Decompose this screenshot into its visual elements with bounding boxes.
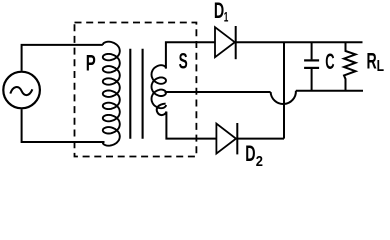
transformer dashed box: [75, 23, 197, 157]
svg-text:P: P: [86, 50, 96, 75]
wire source bottom to primary: [22, 109, 105, 142]
svg-text:1: 1: [224, 8, 229, 24]
capacitor C: [304, 42, 319, 90]
wire diode junction vertical: [283, 42, 285, 138]
svg-text:D: D: [214, 0, 224, 23]
ac source: [3, 72, 40, 109]
svg-text:S: S: [179, 49, 188, 74]
wire center tap: [165, 91, 271, 93]
wire bottom output rail: [296, 90, 363, 92]
transformer secondary winding: [152, 65, 167, 108]
resistor RL: [344, 42, 356, 90]
svg-text:R: R: [367, 49, 377, 74]
svg-text:L: L: [377, 58, 384, 75]
svg-text:2: 2: [256, 153, 263, 169]
diode D2: [216, 123, 284, 154]
transformer core: [130, 49, 142, 139]
diode D1: [215, 26, 284, 59]
wire source top to primary: [22, 45, 103, 71]
svg-text:D: D: [245, 141, 255, 166]
wire hop: [271, 91, 296, 104]
wire top output rail: [284, 41, 363, 43]
transformer primary winding: [103, 42, 120, 146]
svg-text:C: C: [325, 49, 334, 74]
wire secondary bottom hook to D2: [157, 104, 217, 139]
wire secondary top lead: [166, 42, 215, 68]
